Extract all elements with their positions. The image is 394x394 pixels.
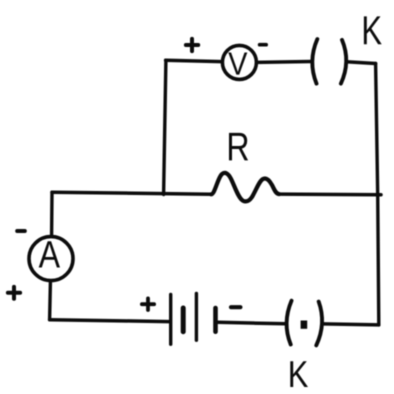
switch K2 left contact (: [287, 301, 292, 345]
ammeter label A: [39, 241, 60, 267]
wire ammeter to bottom-left corner: [48, 283, 52, 320]
voltmeter label V: [228, 53, 247, 75]
label - (ammeter minus): [17, 229, 25, 233]
wire battery to switch K2: [218, 322, 286, 324]
label K (bottom switch): [290, 361, 308, 387]
switch K1 left contact (: [312, 39, 317, 84]
wire middle horizontal left: [52, 192, 211, 194]
wire top-left horizontal: [166, 60, 222, 61]
voltmeter U1 circle: [222, 45, 256, 79]
battery BT1 plate short 2: [213, 308, 218, 332]
label K (top switch): [364, 16, 382, 44]
label - (battery minus): [231, 305, 240, 309]
wire voltmeter to switch K1: [257, 60, 311, 64]
wire right vertical: [376, 64, 379, 325]
wire left vertical of top loop: [164, 60, 166, 194]
label + (ammeter plus): [8, 287, 20, 299]
label + (battery plus): [142, 298, 154, 310]
label + (voltmeter plus): [186, 39, 198, 51]
ammeter U2 circle: [29, 237, 73, 281]
node middle-left corner: [50, 192, 54, 235]
label R: [229, 133, 248, 161]
wire middle horizontal right: [279, 192, 381, 196]
wire switch K2 to bottom-right corner: [323, 324, 379, 325]
switch K2 right contact ): [316, 302, 322, 346]
battery BT1 plate long 1: [169, 295, 172, 345]
resistor R squiggle: [211, 173, 279, 201]
wire bottom-left horizontal to battery: [50, 320, 170, 322]
battery BT1 plate short 1: [181, 308, 186, 332]
battery BT1 plate long 2: [195, 293, 198, 340]
wire switch K1 to top-right corner: [346, 62, 375, 64]
switch K2 plug dot: [301, 321, 308, 329]
switch K1 right contact ): [341, 40, 346, 84]
label - (voltmeter minus): [260, 43, 267, 47]
